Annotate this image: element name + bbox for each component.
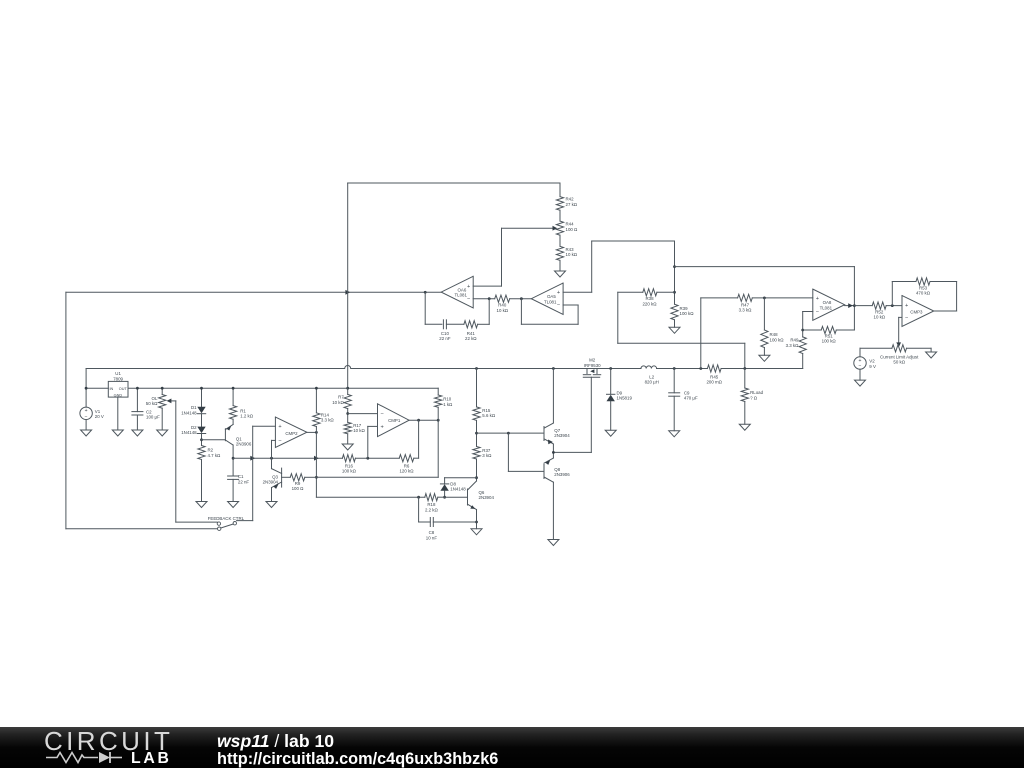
wire R41 to OA6 minus xyxy=(478,323,490,325)
CircuitLab logo resistor-diode glyph xyxy=(46,753,98,763)
svg-text:100 kΩ: 100 kΩ xyxy=(342,469,357,474)
svg-text:27 kΩ: 27 kΩ xyxy=(566,202,578,207)
wire Q3 node to CMP1 output riser xyxy=(316,476,438,478)
ground V2 xyxy=(855,380,866,386)
svg-text:100 µF: 100 µF xyxy=(146,415,160,420)
wire R40 to OA5 xyxy=(510,298,532,300)
R44 wiper arrow xyxy=(553,226,558,231)
ground U1 xyxy=(112,430,123,436)
wire R52 to CMP3 xyxy=(886,305,902,307)
junction driver output node xyxy=(552,451,555,454)
wire base link to Q1 xyxy=(202,439,226,441)
wire R10 bottom lead xyxy=(437,407,439,420)
wire OA6 plus input xyxy=(473,285,501,287)
voltage source V2 9 V xyxy=(854,357,866,369)
wire CMP2 minus drop xyxy=(271,440,273,468)
wire OA6 feedback drop xyxy=(424,292,426,324)
wire R14 top xyxy=(315,388,317,413)
ground R39 xyxy=(669,327,680,333)
wire Q6 emitter down xyxy=(476,510,478,529)
junction CMP2 output node xyxy=(315,431,318,434)
wire D1 top xyxy=(201,388,203,407)
capacitor C9 470 uF xyxy=(669,392,680,394)
svg-text:50 kΩ: 50 kΩ xyxy=(893,360,905,365)
ground Q8 xyxy=(548,540,559,546)
wire R47 drop to bus xyxy=(700,298,702,369)
svg-text:20 V: 20 V xyxy=(95,414,104,419)
svg-text:100 Ω: 100 Ω xyxy=(566,227,579,232)
resistor R18 2.2 kOhm xyxy=(425,494,438,501)
wire V1 to ground xyxy=(85,420,87,431)
svg-text:2N3906: 2N3906 xyxy=(236,442,252,447)
wire Q3 emitter to ground xyxy=(271,488,273,502)
junction V1/U1/bus xyxy=(85,387,88,390)
comparator CMP2 xyxy=(275,417,307,448)
wire gate to driver node xyxy=(553,451,591,453)
wire C2 top xyxy=(136,388,138,411)
ground Q6 xyxy=(471,529,482,535)
wire R18 line from Q3 node xyxy=(316,496,424,498)
junction Q1 collector node xyxy=(232,457,235,460)
svg-text:OA5: OA5 xyxy=(547,294,556,299)
junction Q7/Q8 base tie xyxy=(507,432,510,435)
resistor R48 100 kOhm xyxy=(761,330,768,348)
svg-text:100 kΩ: 100 kΩ xyxy=(680,311,695,316)
voltage source V1 20 V xyxy=(80,407,92,419)
ground pot right xyxy=(926,352,937,358)
wire OL bottom xyxy=(161,408,163,430)
svg-text:LAB: LAB xyxy=(131,750,172,767)
wire R1 top xyxy=(232,388,234,405)
wire R7 to R17 xyxy=(347,409,349,423)
svg-text:? Ω: ? Ω xyxy=(750,395,758,400)
wire Q6 base xyxy=(445,496,468,498)
current limit pot wiper arrow xyxy=(896,342,901,347)
wire D9 top xyxy=(610,369,612,395)
comparator CMP1 xyxy=(378,404,410,437)
op-amp OA6 TL081 xyxy=(441,276,473,308)
wire Q1 collector down xyxy=(232,445,234,476)
wire 9V rail right of U1 xyxy=(128,387,438,389)
svg-text:OA6: OA6 xyxy=(458,287,467,292)
wire R14 bottom segment xyxy=(315,427,317,433)
svg-text:1N4148: 1N4148 xyxy=(181,410,197,415)
resistor R51 100 kOhm xyxy=(803,329,822,331)
wire Q8 collector down xyxy=(552,482,554,539)
svg-text:FEEDBACK CTRL: FEEDBACK CTRL xyxy=(208,516,245,521)
wire M2 gate drop xyxy=(590,377,592,452)
junction D8/R18 node xyxy=(443,496,446,499)
wire R18 right lead xyxy=(438,496,445,498)
wire C9 top xyxy=(673,369,675,393)
wire CMP3 minus xyxy=(899,316,902,318)
junction CMP1 plus tap xyxy=(366,457,369,460)
wire CMP2 plus drop to switch xyxy=(252,426,254,520)
junction R6 riser xyxy=(417,419,420,422)
transistor Q3 2N3904 xyxy=(281,468,283,487)
ground C9 xyxy=(669,431,680,437)
wire R15 to base node xyxy=(476,420,478,446)
svg-text:22 nF: 22 nF xyxy=(439,336,451,341)
junction R15 bus tap xyxy=(475,367,478,370)
wire to R44 wiper xyxy=(502,227,554,229)
wire feedback net from OA6 output to left edge xyxy=(66,291,441,293)
wire C10 to R41 xyxy=(446,323,464,325)
wire D2 to junction xyxy=(201,434,203,446)
resistor R41 22 kOhm xyxy=(464,321,478,328)
svg-text:CMP2: CMP2 xyxy=(285,431,298,436)
resistor R6 120 kOhm xyxy=(399,455,414,462)
transistor Q8 2N3906 xyxy=(543,465,545,479)
wire V2 to ground xyxy=(859,369,861,380)
wire Q8 base tie vertical xyxy=(507,433,509,471)
wire Q7 emitter down xyxy=(552,444,554,458)
regulator U1 7809 xyxy=(108,381,128,397)
wire 9V rail xyxy=(86,387,108,389)
wire R6 riser xyxy=(418,420,420,458)
wire D8 link xyxy=(445,477,477,479)
wire R38 drop to output node xyxy=(618,342,745,344)
junction R38 right xyxy=(673,291,676,294)
ground Q3 xyxy=(266,502,277,508)
svg-text:+: + xyxy=(278,424,281,430)
junction C9 tap xyxy=(673,367,676,370)
resistor R9 100 Ohm xyxy=(290,474,305,481)
ground V1 xyxy=(81,430,92,436)
resistor R2 4.7 kOhm xyxy=(198,446,205,460)
wire CMP1 plus input xyxy=(368,425,378,427)
wire CMP2 minus input xyxy=(272,439,276,441)
svg-text:−: − xyxy=(278,438,281,444)
svg-text:10 kΩ: 10 kΩ xyxy=(497,308,509,313)
wire OA6 minus input xyxy=(473,298,495,300)
diode D2 1N4148 xyxy=(197,433,205,435)
junction OA8 output node xyxy=(853,304,856,307)
svg-text:1N5819: 1N5819 xyxy=(617,396,633,401)
wire R37 to D8 node xyxy=(476,459,478,481)
svg-text:wsp11 / lab 10: wsp11 / lab 10 xyxy=(217,731,334,751)
wire Q7 base line xyxy=(477,432,545,434)
wire CMP1 output drop to Q3 line xyxy=(437,420,439,477)
wire Q7 collector riser xyxy=(552,369,554,424)
wire RLoad to ground xyxy=(744,402,746,425)
svg-text:+: + xyxy=(467,284,470,290)
resistor R16 100 kOhm xyxy=(342,455,355,462)
wire R1 to Q1 emitter xyxy=(232,419,234,424)
wire R38 left drop xyxy=(617,292,619,343)
svg-text:−: − xyxy=(380,411,383,417)
junction arrow on 9V vertical at OA6 output line xyxy=(345,290,350,295)
wire R53 riser xyxy=(891,282,893,306)
resistor R47 3.3 kOhm xyxy=(701,297,738,299)
wire CMP3 output xyxy=(934,310,957,312)
junction D9 tap xyxy=(609,367,612,370)
resistor R38 220 kOhm xyxy=(618,291,643,293)
wire 20V bus right of L2 xyxy=(657,368,708,370)
wire C9 to ground xyxy=(673,396,675,431)
wire R39 to ground xyxy=(674,320,676,328)
wire OA5 plus rect right edge xyxy=(674,241,676,304)
svg-text:2.2 kΩ: 2.2 kΩ xyxy=(425,507,439,512)
svg-text:10 nF: 10 nF xyxy=(426,535,438,540)
wire R48 top xyxy=(763,298,765,330)
wire OL wiper to feedback switch xyxy=(175,401,177,522)
ground D9 xyxy=(605,430,616,436)
wire OA5 plus riser xyxy=(591,241,593,292)
junction R10 bottom xyxy=(437,419,440,422)
diode D8 1N4148 xyxy=(444,478,446,484)
op-amp OA8 TL081 xyxy=(813,289,845,320)
resistor R45 200 mOhm xyxy=(707,365,721,372)
ground R2 xyxy=(196,502,207,508)
svg-text:+: + xyxy=(905,303,908,309)
wire Q3 base xyxy=(282,476,291,478)
svg-text:−: − xyxy=(467,297,470,303)
resistor RLoad xyxy=(741,388,748,402)
svg-text:+: + xyxy=(816,296,819,302)
svg-text:1 kΩ: 1 kΩ xyxy=(443,402,453,407)
junction OA8 minus node xyxy=(801,329,804,332)
wire CMP2 plus input xyxy=(253,425,276,427)
resistor R17 10 kOhm xyxy=(344,422,351,434)
svg-text:22 kΩ: 22 kΩ xyxy=(465,336,477,341)
wire switch common from left run xyxy=(66,528,218,530)
svg-text:10 kΩ: 10 kΩ xyxy=(332,400,344,405)
wire R7 top lead xyxy=(347,388,349,394)
wire pot left to V2 xyxy=(860,347,892,349)
potentiometer Current Limit Adjust 50 kOhm xyxy=(892,345,907,352)
wire OA8 output xyxy=(845,305,853,307)
svg-text:−: − xyxy=(557,303,560,309)
svg-text:CMP3: CMP3 xyxy=(910,309,923,314)
svg-text:50 kΩ: 50 kΩ xyxy=(146,401,158,406)
capacitor C8 10 nF xyxy=(429,518,431,527)
wire R17 to ground xyxy=(347,434,349,444)
junction CMP1 minus node xyxy=(346,412,349,415)
junction OL rail xyxy=(161,387,164,390)
wire R53 right xyxy=(930,281,957,283)
wire OL top xyxy=(161,388,163,394)
svg-text:120 kΩ: 120 kΩ xyxy=(399,469,414,474)
svg-text:TL081: TL081 xyxy=(454,293,467,298)
junction Q7 collector bus tap xyxy=(552,367,555,370)
wire left vertical feedback run xyxy=(65,292,67,528)
svg-text:OA8: OA8 xyxy=(823,300,832,305)
wire R44-R43 xyxy=(559,235,561,246)
wire CMP1 minus input xyxy=(348,413,378,415)
junction R53 tap xyxy=(891,304,894,307)
wire CMP2 output xyxy=(307,431,317,433)
svg-text:+: + xyxy=(557,290,560,296)
capacitor C2 100uF xyxy=(132,411,143,413)
junction C8 right xyxy=(475,521,478,524)
svg-text:+: + xyxy=(380,424,383,430)
wire 9V divider feed top xyxy=(348,182,560,184)
ground C2 xyxy=(132,430,143,436)
resistor R39 100 kOhm xyxy=(671,304,678,320)
junction R47 bus tap xyxy=(699,367,702,370)
wire CMP2 output drop to Q3 node xyxy=(315,432,317,497)
wire between R16 and R6 xyxy=(355,457,399,459)
wire R15 top xyxy=(476,369,478,407)
svg-text:10 kΩ: 10 kΩ xyxy=(353,428,365,433)
wire U1 GND pin xyxy=(117,397,119,430)
wire R2 to ground xyxy=(201,460,203,502)
junction arrow OA8 output xyxy=(848,303,853,308)
resistor R40 10 kOhm xyxy=(495,295,510,302)
transistor M2 IRF9530 xyxy=(586,369,588,374)
transistor Q7 2N3904 xyxy=(543,427,545,441)
svg-text:470 kΩ: 470 kΩ xyxy=(916,291,931,296)
junction RLoad node xyxy=(743,367,746,370)
wire R52 line xyxy=(854,305,872,307)
ground R48 xyxy=(759,355,770,361)
wire 9V rail drop to R10 xyxy=(437,388,439,395)
ground OL xyxy=(157,430,168,436)
junction CMP2 minus / Q3 xyxy=(270,457,273,460)
wire C1 to ground xyxy=(232,479,234,501)
junction OA5 output node xyxy=(520,297,523,300)
wire D8 bottom xyxy=(444,491,446,497)
wire R9 to node xyxy=(305,476,317,478)
svg-text:3 kΩ: 3 kΩ xyxy=(482,453,492,458)
wire CMP1 output xyxy=(409,419,438,421)
wire 20V bus xyxy=(86,366,641,369)
junction OA6 minus node xyxy=(488,297,491,300)
ground R43 xyxy=(555,271,566,277)
junction R1 rail xyxy=(232,387,235,390)
svg-text:200 mΩ: 200 mΩ xyxy=(706,380,722,385)
resistor R10 1 kOhm xyxy=(435,395,442,407)
svg-text:2N3904: 2N3904 xyxy=(479,495,495,500)
resistor R1 1.2 kOhm xyxy=(230,406,237,420)
resistor R42 27 kOhm xyxy=(556,197,563,211)
wire pot right to ground xyxy=(907,347,932,349)
junction D2/R2/Q1 base xyxy=(200,438,203,441)
transistor Q6 2N3904 xyxy=(467,489,469,505)
resistor R52 10 kOhm xyxy=(872,302,886,309)
junction Q7 base node xyxy=(475,432,478,435)
diode D9 1N5819 xyxy=(607,393,615,395)
wire D9 to ground xyxy=(610,401,612,430)
junction OA6 feedback tap xyxy=(424,291,427,294)
wire 9V divider vertical xyxy=(347,183,349,292)
junction R48 tap xyxy=(763,297,766,300)
svg-text:9 V: 9 V xyxy=(869,364,876,369)
ground RLoad xyxy=(739,424,750,430)
wire R48 to ground xyxy=(763,348,765,356)
svg-text:−: − xyxy=(816,309,819,315)
svg-text:TL081: TL081 xyxy=(544,299,557,304)
junction R7 rail xyxy=(346,387,349,390)
switch FEEDBACK CTRL xyxy=(217,522,220,525)
svg-text:10 kΩ: 10 kΩ xyxy=(874,315,886,320)
capacitor C10 22 nF xyxy=(442,320,444,329)
resistor R43 10 kOhm xyxy=(556,246,563,260)
svg-text:3.3 kΩ: 3.3 kΩ xyxy=(739,308,753,313)
svg-text:100 kΩ: 100 kΩ xyxy=(822,339,837,344)
svg-text:2N3904: 2N3904 xyxy=(263,480,279,485)
resistor R37 3 kOhm xyxy=(473,447,480,460)
wire V1 top to rails xyxy=(85,369,87,408)
svg-text:470 µF: 470 µF xyxy=(684,396,698,401)
wire D1-D2 xyxy=(201,414,203,427)
footer bar xyxy=(0,727,1024,768)
svg-text:10 kΩ: 10 kΩ xyxy=(566,252,578,257)
wire OA8 minus input xyxy=(803,311,813,313)
svg-text:OUT: OUT xyxy=(119,387,128,391)
wire comparator input line xyxy=(233,457,342,459)
svg-text:3.3 kΩ: 3.3 kΩ xyxy=(321,418,335,423)
svg-text:1N4148: 1N4148 xyxy=(181,430,197,435)
resistor R49 3.3 kOhm xyxy=(799,337,806,354)
comparator CMP3 xyxy=(902,296,934,327)
wire R49 to output node xyxy=(802,354,804,369)
wire R6 right lead xyxy=(414,457,419,459)
svg-text:100 Ω: 100 Ω xyxy=(292,486,305,491)
svg-text:2N3906: 2N3906 xyxy=(554,472,570,477)
diode D1 1N4148 xyxy=(197,413,205,415)
junction D1 rail xyxy=(200,387,203,390)
svg-text:−: − xyxy=(905,315,908,321)
wire OA6 plus riser xyxy=(501,228,503,286)
inductor L2 820 uH xyxy=(641,366,657,369)
resistor R53 470 kOhm xyxy=(916,278,930,285)
ground R17 xyxy=(342,444,353,450)
op-amp OA5 TL081 xyxy=(531,283,563,314)
wire R43 to ground xyxy=(559,260,561,271)
wire divider top drop xyxy=(559,183,561,197)
junction Q3 base node xyxy=(315,476,318,479)
wire OA5 plus to OA8 feedback line xyxy=(675,266,855,268)
wire R42-R44 xyxy=(559,210,561,221)
wire C2 bottom xyxy=(136,415,138,430)
svg-text:100 kΩ: 100 kΩ xyxy=(770,337,785,342)
ground C1 xyxy=(228,502,239,508)
svg-text:22 nF: 22 nF xyxy=(238,479,250,484)
svg-text:5.6 kΩ: 5.6 kΩ xyxy=(482,413,496,418)
svg-text:IN: IN xyxy=(110,387,114,391)
wire CMP1 plus drop xyxy=(367,426,369,458)
svg-text:1N4148: 1N4148 xyxy=(450,487,466,492)
svg-text:820 µH: 820 µH xyxy=(645,380,659,385)
wire C8 riser xyxy=(418,497,420,522)
wire OA5 minus loop xyxy=(563,304,578,306)
wire OA5 plus input xyxy=(563,291,592,293)
svg-text:2N3904: 2N3904 xyxy=(554,433,570,438)
junction R18/C8 node xyxy=(417,496,420,499)
potentiometer R44 100 Ohm xyxy=(556,221,563,235)
junction OA5-OA8 link xyxy=(673,265,676,268)
wire OA8 minus drop xyxy=(802,312,804,337)
svg-text:7809: 7809 xyxy=(113,376,123,381)
resistor R7 10 kOhm xyxy=(344,394,351,408)
svg-text:3.3 kΩ: 3.3 kΩ xyxy=(786,343,800,348)
svg-text:IRF9530: IRF9530 xyxy=(584,363,601,368)
potentiometer OL 50 kOhm xyxy=(159,395,166,409)
svg-text:TL081: TL081 xyxy=(820,305,833,310)
wire CMP3 minus drop to wiper xyxy=(898,317,900,343)
wire RLoad top xyxy=(744,369,746,389)
junction C2 rail xyxy=(136,387,139,390)
wire Q8 base line xyxy=(508,470,544,472)
resistor R14 3.3 kOhm xyxy=(313,413,320,427)
resistor R15 5.6 kOhm xyxy=(473,407,480,421)
junction D8 node xyxy=(475,476,478,479)
svg-text:CMP1: CMP1 xyxy=(388,418,401,423)
svg-text:220 kΩ: 220 kΩ xyxy=(642,301,657,306)
capacitor C1 22 nF xyxy=(228,475,239,477)
